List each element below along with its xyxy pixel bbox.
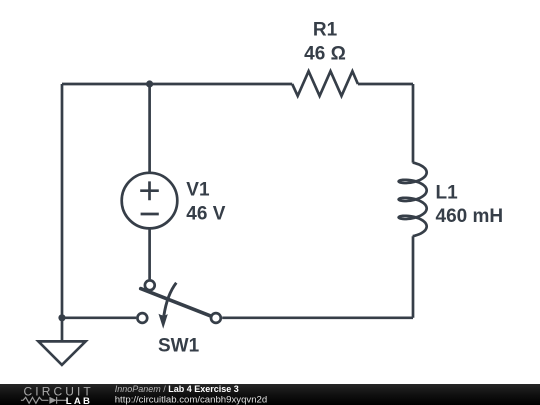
svg-text:SW1: SW1: [158, 336, 200, 357]
wire left vertical: [61, 84, 64, 318]
node bottom-left junction: [58, 314, 65, 321]
footer bar: [0, 384, 540, 405]
wire right vertical lower: [412, 236, 415, 318]
svg-text:InnoPanem / Lab 4 Exercise 3: InnoPanem / Lab 4 Exercise 3: [115, 384, 239, 394]
wire V1 top lead: [148, 84, 151, 173]
wire resistor to top-right corner: [358, 83, 413, 86]
svg-text:460 mH: 460 mH: [436, 206, 504, 227]
svg-text:46 Ω: 46 Ω: [304, 44, 346, 65]
wire bottom left to switch: [62, 316, 136, 319]
switch SW1 blade: [141, 289, 212, 317]
svg-text:LAB: LAB: [66, 396, 92, 405]
svg-text:V1: V1: [186, 180, 210, 201]
svg-text:L1: L1: [436, 182, 459, 203]
ground: [38, 341, 85, 365]
switch SW1 arrow: [164, 283, 176, 316]
wire bottom right to switch: [222, 316, 413, 319]
svg-text:http://circuitlab.com/canbh9xy: http://circuitlab.com/canbh9xyqvn2d: [115, 394, 268, 405]
logo zigzag + diode: [21, 397, 67, 404]
wire V1 bottom lead: [148, 228, 151, 279]
inductor L1: [399, 163, 427, 237]
voltage source V1: [122, 173, 178, 229]
node top junction: [146, 80, 153, 87]
svg-text:46 V: 46 V: [186, 203, 225, 224]
wire right vertical upper: [412, 84, 415, 163]
switch SW1 terminals: [137, 280, 220, 323]
wire top-left to resistor: [62, 83, 292, 86]
resistor R1: [292, 71, 358, 96]
svg-text:R1: R1: [313, 20, 338, 41]
wire ground lead: [61, 318, 64, 342]
